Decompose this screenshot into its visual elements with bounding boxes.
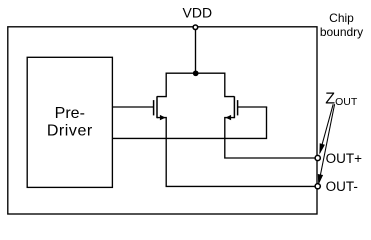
wire Q2 gate lead (238, 106, 267, 108)
transistor Q2 drain lead (225, 73, 235, 97)
svg-text:OUT-: OUT- (326, 179, 358, 194)
VDD terminal circle (193, 25, 198, 30)
wire VDD vertical (195, 27, 197, 73)
svg-text:Driver: Driver (47, 123, 93, 140)
transistor Q1 drain lead (157, 73, 166, 97)
transistor Q1 source lead / wire to OUT- (157, 118, 315, 187)
transistor Q1 gate bar (153, 100, 155, 115)
Zout arrow to OUT- (319, 104, 334, 181)
node OUT- terminal circle (315, 184, 320, 189)
pre-driver box (27, 57, 112, 187)
svg-text:ZOUT: ZOUT (325, 91, 358, 108)
svg-text:OUT+: OUT+ (326, 151, 362, 166)
svg-text:Chip: Chip (329, 11, 354, 25)
svg-text:Pre-: Pre- (55, 105, 85, 122)
svg-text:VDD: VDD (183, 5, 213, 21)
svg-text:boundry: boundry (320, 25, 363, 39)
transistor Q2 gate bar (237, 100, 239, 115)
Zout arrow to OUT+ (320, 104, 333, 153)
transistor Q2 source lead / wire to OUT+ (225, 118, 315, 158)
chip boundary (8, 27, 317, 214)
wire Q2 gate feedback to pre-driver (112, 107, 266, 138)
junction dot (193, 70, 199, 76)
transistor Q2 source arrow (225, 115, 231, 120)
transistor Q2 channel bar (233, 96, 235, 118)
node OUT+ terminal circle (315, 155, 320, 160)
wire top rail (166, 72, 225, 74)
transistor Q1 source arrow (160, 115, 166, 120)
transistor Q1 channel bar (156, 96, 158, 118)
wire Q1 gate from pre-driver (112, 106, 153, 108)
